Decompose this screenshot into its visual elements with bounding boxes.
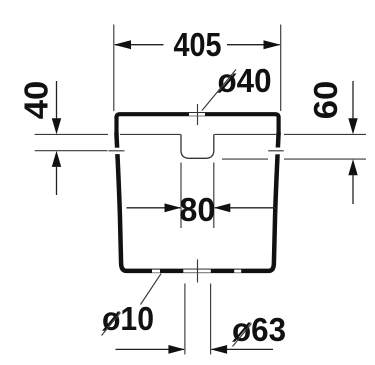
node 80 arrowhead left-pointing xyxy=(214,203,231,212)
node 405 arrowhead right xyxy=(264,40,281,49)
wire ø63 dim line right xyxy=(212,348,273,350)
diode recess outline xyxy=(181,134,214,158)
wire 405 dimension line right segment xyxy=(227,44,280,46)
wire 40 dim lower segment xyxy=(56,165,58,195)
wire 405 extension line left xyxy=(113,25,115,112)
node bottom slot middle ø63 xyxy=(183,270,211,273)
wire rim line outside right xyxy=(284,133,366,135)
node right wall break xyxy=(274,148,281,155)
wire bottom centerline xyxy=(197,259,199,282)
wire right wall cross tick xyxy=(268,150,284,152)
svg-text:60: 60 xyxy=(308,81,345,120)
wire ø10 leader line xyxy=(141,274,162,305)
wire lower line right 60 xyxy=(284,158,366,160)
node 405 arrowhead left xyxy=(114,40,131,49)
node ø40 top slot xyxy=(189,113,205,116)
node bottom slot left ø10 xyxy=(152,270,160,273)
node 80 arrowhead right-pointing xyxy=(165,203,182,212)
wire 80 dim line left xyxy=(127,207,181,209)
wire 405 extension line right xyxy=(280,25,282,112)
svg-text:405: 405 xyxy=(174,27,222,64)
node 60 arrowhead up xyxy=(348,159,357,175)
node 40 arrowhead down xyxy=(52,118,61,134)
capacitor lid outline xyxy=(117,114,279,134)
node ø63 arrowhead left-pointing xyxy=(211,345,228,354)
wire 40 dim upper segment xyxy=(56,81,58,120)
node left wall break xyxy=(115,148,122,154)
wire ø63 slash extension xyxy=(233,324,252,347)
wire ø40 center tick xyxy=(197,104,199,125)
wire ø63 hole line left xyxy=(184,284,186,355)
wire ø63 hole line right xyxy=(210,284,212,355)
wire recess bottom line interior right xyxy=(222,158,268,160)
wire 80 extension line right xyxy=(213,163,215,229)
wire rim line outside left xyxy=(35,133,108,135)
wire ø63 dim line left xyxy=(116,348,185,350)
wire 80 extension line left xyxy=(180,163,182,229)
wire 60 dim upper segment xyxy=(352,81,354,120)
node 60 arrowhead down xyxy=(348,118,357,134)
node bottom slot right xyxy=(234,270,241,273)
wire ø40 leader line xyxy=(202,70,236,111)
wire 60 dim lower segment xyxy=(352,174,354,205)
svg-text:40: 40 xyxy=(19,81,56,120)
wire lower line left 40 xyxy=(35,150,108,152)
svg-text:ø10: ø10 xyxy=(102,301,154,338)
wire rim line interior left xyxy=(120,133,181,135)
transistor tank body outline xyxy=(116,133,278,271)
wire ø10 slash extension xyxy=(102,313,121,336)
wire rim line interior right xyxy=(214,133,276,135)
wire left wall cross tick xyxy=(109,150,125,152)
node ø63 arrowhead right-pointing xyxy=(168,345,185,354)
wire 80 dim line right xyxy=(215,207,277,209)
svg-text:80: 80 xyxy=(179,192,215,229)
node 40 arrowhead up xyxy=(52,151,61,167)
svg-text:ø63: ø63 xyxy=(232,312,286,349)
wire 405 dimension line left segment xyxy=(115,44,164,46)
